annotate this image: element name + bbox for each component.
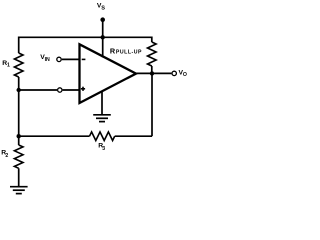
wire VIN terminal to - input [62,58,80,60]
wire bottom right to R3 [115,135,152,137]
svg-text:3: 3 [102,146,105,152]
wire R1 bottom to node B [18,77,20,136]
node VIN open terminal [57,57,61,61]
wire pull-up top stub [151,37,153,43]
label RPULL-UP [110,47,142,56]
op-amp U1 [80,44,137,103]
svg-text:PULL-UP: PULL-UP [116,50,142,56]
wire R1 top stub [18,37,20,54]
node top rail / VS junction [101,35,105,39]
node A junction (to + input) [17,88,21,92]
svg-text:1: 1 [7,63,10,69]
svg-text:O: O [183,72,187,78]
label VS [97,3,105,12]
label R1 [2,60,10,69]
resistor R2 [14,145,23,168]
node B junction (R2 / R3) [17,134,21,138]
svg-text:S: S [101,5,105,11]
label VO [179,69,187,78]
ground op-amp [93,115,111,122]
wire output down right side [151,73,153,136]
wire node A to + input terminal [19,89,57,91]
svg-text:2: 2 [5,153,8,159]
wire op-amp output [136,72,171,74]
node + input open terminal [58,88,62,92]
label R2 [1,150,8,160]
wire top rail [19,36,152,38]
wire op-amp V- pin to ground [101,91,103,115]
label VIN [40,54,50,63]
wire pull-up bottom stub [151,66,153,73]
node VO open terminal [172,71,176,75]
label R3 [98,143,105,152]
wire R2 top stub [18,136,20,145]
node VS terminal dot [100,17,105,22]
resistor R3 [90,132,115,141]
node output junction [150,71,154,75]
resistor R1 [14,53,23,77]
wire R3 to node B [19,135,90,137]
wire op-amp V+ supply pin [102,37,104,57]
svg-text:IN: IN [45,57,50,63]
wire VS stub down to top rail [102,20,104,38]
resistor RPULL-UP [148,42,157,66]
ground R2 [10,187,28,194]
wire + input terminal to op-amp [63,89,80,91]
wire R2 bottom to ground [18,168,20,186]
